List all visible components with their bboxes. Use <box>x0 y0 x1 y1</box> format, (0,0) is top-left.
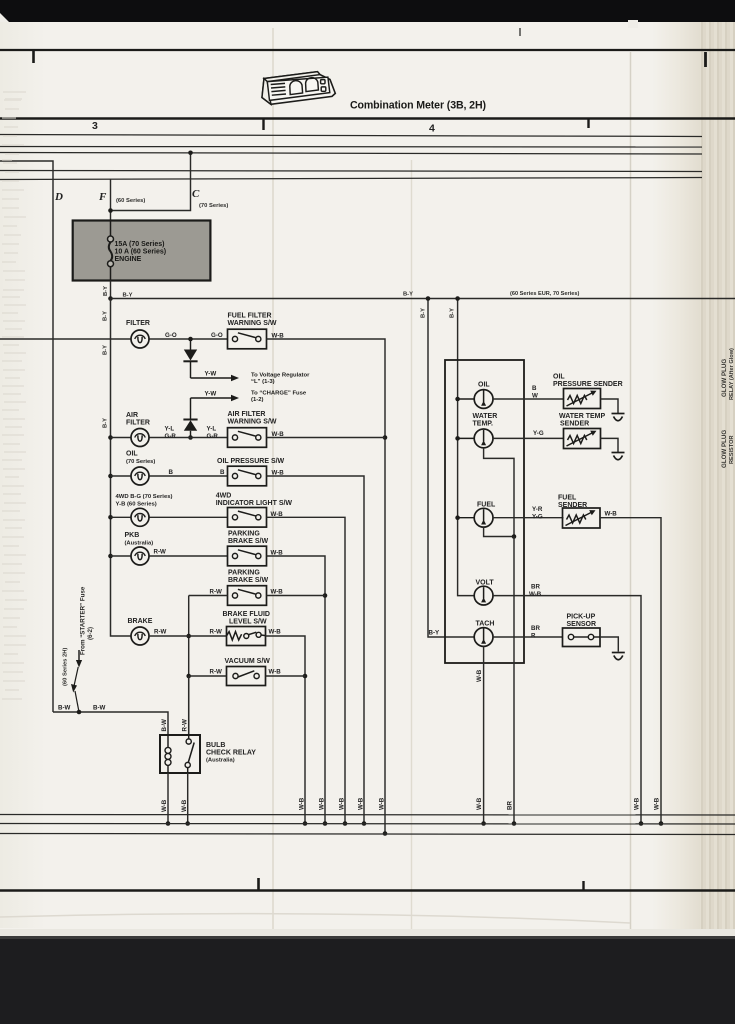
svg-text:B-Y: B-Y <box>103 418 109 428</box>
svg-text:(Australia): (Australia) <box>125 540 154 546</box>
svg-text:SENSOR: SENSOR <box>567 621 597 628</box>
svg-text:WATER TEMP: WATER TEMP <box>559 413 605 420</box>
lamp OIL <box>126 451 155 486</box>
lamp 4WD <box>116 494 173 526</box>
title Combination Meter <box>350 100 486 112</box>
svg-text:BRAKE FLUID: BRAKE FLUID <box>223 611 270 618</box>
wire water temp gauge to sender <box>493 430 564 438</box>
combination meter gauge box <box>445 360 524 663</box>
svg-text:OIL: OIL <box>126 451 138 458</box>
wire pickup sensor to ground <box>600 637 618 652</box>
gauge WATER TEMP <box>458 413 498 448</box>
wire water temp sender to ground <box>601 438 619 452</box>
svg-text:SENDER: SENDER <box>560 420 589 427</box>
node F <box>98 191 145 204</box>
wire BRAKE row <box>149 635 227 637</box>
wire 4WD row <box>111 516 228 518</box>
svg-text:15A (70 Series): 15A (70 Series) <box>115 241 165 248</box>
svg-text:FUEL FILTER: FUEL FILTER <box>228 313 272 320</box>
wire volt to ground bus <box>493 584 643 826</box>
wire B-Y main feed <box>111 291 735 299</box>
combination meter illustration <box>262 72 335 105</box>
svg-text:G-O: G-O <box>211 332 223 339</box>
wire D from left edge down <box>0 161 53 712</box>
svg-text:W-B: W-B <box>271 589 284 596</box>
svg-text:G-R: G-R <box>207 433 219 440</box>
svg-text:B-Y: B-Y <box>123 293 133 299</box>
svg-text:(1-2): (1-2) <box>251 397 263 403</box>
wire sender to ground <box>601 399 619 414</box>
svg-text:W-B: W-B <box>161 799 168 812</box>
wire tach to pickup sensor <box>493 625 563 639</box>
svg-text:RESISTOR: RESISTOR <box>729 436 735 465</box>
svg-text:PRESSURE SENDER: PRESSURE SENDER <box>553 381 623 388</box>
switch PARKING BRAKE S/W 1 <box>228 531 284 566</box>
svg-text:Combination Meter (3B, 2H): Combination Meter (3B, 2H) <box>350 100 486 112</box>
wire VACUUM row <box>189 675 305 677</box>
svg-text:WARNING S/W: WARNING S/W <box>228 320 277 327</box>
svg-text:WARNING S/W: WARNING S/W <box>228 418 277 425</box>
svg-text:TACH: TACH <box>476 621 495 628</box>
wire oil gauge to sender <box>493 385 564 399</box>
svg-text:PARKING: PARKING <box>228 531 260 538</box>
svg-text:B: B <box>220 469 225 476</box>
svg-text:BRAKE S/W: BRAKE S/W <box>228 538 268 545</box>
diode D2 <box>183 398 197 440</box>
gauge FUEL <box>458 502 496 528</box>
sender OIL PRESSURE SENDER <box>553 374 623 409</box>
lamp AIR FILTER <box>126 412 150 447</box>
gauge OIL <box>458 382 493 409</box>
label From STARTER Fuse <box>63 586 95 686</box>
svg-text:W-B: W-B <box>379 797 386 810</box>
switch OIL PRESSURE S/W <box>217 458 285 486</box>
wire B-Y from fuse <box>103 281 113 301</box>
svg-text:FILTER: FILTER <box>126 320 150 327</box>
svg-text:R-W: R-W <box>210 669 223 676</box>
svg-text:W-B: W-B <box>529 591 542 598</box>
svg-text:OIL PRESSURE S/W: OIL PRESSURE S/W <box>217 458 285 465</box>
svg-text:B: B <box>532 385 537 392</box>
relay BULB CHECK RELAY <box>160 735 256 773</box>
svg-text:W-B: W-B <box>269 629 282 636</box>
svg-text:D: D <box>54 191 63 203</box>
ground water temp sender <box>612 453 625 460</box>
wire R-W to relay <box>182 676 189 735</box>
svg-text:4WD B-G (70 Series): 4WD B-G (70 Series) <box>116 494 173 500</box>
wire W-B air filter return <box>267 437 386 439</box>
svg-text:PKB: PKB <box>125 532 140 539</box>
svg-text:TEMP.: TEMP. <box>473 420 494 427</box>
svg-text:R: R <box>531 632 536 639</box>
wire R-W riser <box>186 596 191 736</box>
svg-text:(70 Series): (70 Series) <box>126 459 155 465</box>
svg-text:Y-W: Y-W <box>205 371 217 378</box>
wire W-B 4wd return <box>267 517 348 826</box>
svg-text:4: 4 <box>429 123 435 135</box>
wire relay switch to ground bus <box>181 773 190 826</box>
svg-text:FUEL: FUEL <box>477 502 496 509</box>
svg-text:B-W: B-W <box>161 719 168 732</box>
svg-text:INDICATOR LIGHT S/W: INDICATOR LIGHT S/W <box>216 500 293 507</box>
svg-text:Y-G: Y-G <box>533 430 544 437</box>
svg-text:(6-2): (6-2) <box>87 627 94 640</box>
switch FUEL FILTER WARNING S/W <box>228 313 285 349</box>
wire BR gauge return riser <box>507 537 517 826</box>
gauge VOLT <box>474 580 494 605</box>
svg-text:BR: BR <box>531 584 540 591</box>
wire W-B brake fluid return <box>266 636 308 826</box>
wire fuel gauge return <box>484 527 517 539</box>
svg-text:W: W <box>532 392 538 399</box>
ground bus wires <box>0 815 735 835</box>
svg-text:W-B: W-B <box>299 797 306 810</box>
right page-edge texture <box>0 22 46 928</box>
svg-text:G-R: G-R <box>165 433 177 440</box>
svg-text:B-W: B-W <box>93 705 106 712</box>
wire W-B fuel sender return <box>600 518 663 826</box>
svg-text:PARKING: PARKING <box>228 570 260 577</box>
wire PKB row <box>111 555 228 557</box>
wire AIR FILTER row <box>111 437 228 439</box>
svg-text:To “CHARGE” Fuse: To “CHARGE” Fuse <box>251 391 307 397</box>
svg-text:(Australia): (Australia) <box>206 758 235 764</box>
wire OIL row <box>111 475 228 477</box>
node C <box>192 188 228 209</box>
wire B-Y gauge feed <box>450 296 475 595</box>
svg-text:From “STARTER” Fuse: From “STARTER” Fuse <box>80 586 87 655</box>
left margin bleed-through noise <box>2 92 27 699</box>
svg-text:(60 Series 2H): (60 Series 2H) <box>63 648 69 686</box>
svg-text:OIL: OIL <box>553 374 565 381</box>
switch PARKING BRAKE S/W 2 <box>210 570 284 606</box>
svg-text:(60 Series): (60 Series) <box>116 198 145 204</box>
sensor PICK-UP SENSOR <box>563 614 601 647</box>
svg-text:W-B: W-B <box>319 797 326 810</box>
wire W-B oil pressure return <box>267 476 367 826</box>
wire B-Y trunk <box>103 299 132 637</box>
svg-text:OIL: OIL <box>478 382 490 389</box>
svg-text:BR: BR <box>531 625 540 632</box>
svg-text:RELAY (After Glow): RELAY (After Glow) <box>729 348 735 400</box>
svg-text:BR: BR <box>507 801 514 810</box>
wire to voltage regulator <box>191 371 311 386</box>
svg-text:R-W: R-W <box>182 719 189 732</box>
svg-text:B-W: B-W <box>58 705 71 712</box>
svg-text:ENGINE: ENGINE <box>115 256 142 263</box>
svg-text:FUEL: FUEL <box>558 495 577 502</box>
svg-text:Y-G: Y-G <box>532 513 543 520</box>
fuse ENGINE 15A/10A <box>73 221 211 281</box>
svg-text:W-B: W-B <box>339 797 346 810</box>
svg-text:Y-W: Y-W <box>205 391 217 398</box>
svg-text:W-B: W-B <box>476 669 483 682</box>
svg-text:B-Y: B-Y <box>103 286 109 296</box>
svg-text:W-B: W-B <box>358 797 365 810</box>
svg-text:B-Y: B-Y <box>103 311 109 321</box>
wire B-Y to tach <box>421 296 475 637</box>
lamp FILTER <box>126 320 150 348</box>
svg-text:VACUUM S/W: VACUUM S/W <box>225 658 271 665</box>
svg-text:B-Y: B-Y <box>103 345 109 355</box>
wire B-W to relay <box>53 705 168 736</box>
svg-text:C: C <box>192 188 200 200</box>
svg-text:GLOW PLUG: GLOW PLUG <box>721 359 728 397</box>
svg-text:B-Y: B-Y <box>450 308 456 318</box>
label G-O <box>165 332 223 339</box>
svg-text:“L” (1-3): “L” (1-3) <box>251 379 275 385</box>
label W-B bus drops <box>299 797 386 810</box>
wire W-B fuel filter return <box>267 339 388 836</box>
svg-text:GLOW PLUG: GLOW PLUG <box>721 430 728 468</box>
svg-text:W-B: W-B <box>476 797 483 810</box>
label Y-L G-R <box>165 426 219 441</box>
svg-text:W-B: W-B <box>181 799 188 812</box>
wire W-B tach return <box>476 646 486 825</box>
svg-text:R-W: R-W <box>210 629 223 636</box>
svg-text:AIR: AIR <box>126 412 138 419</box>
diode D1 <box>183 337 197 378</box>
lamp BRAKE <box>128 618 167 645</box>
svg-text:W-B: W-B <box>654 797 661 810</box>
label B <box>169 469 226 476</box>
wire F to fuse <box>110 180 112 221</box>
switch BRAKE FLUID LEVEL S/W <box>210 611 282 646</box>
wire W-B parking brake return <box>267 556 328 826</box>
svg-text:R-W: R-W <box>210 589 223 596</box>
svg-text:To Voltage Regulator: To Voltage Regulator <box>251 373 310 379</box>
svg-text:WATER: WATER <box>473 413 498 420</box>
svg-text:CHECK RELAY: CHECK RELAY <box>206 749 256 756</box>
svg-text:B-Y: B-Y <box>429 630 441 637</box>
svg-text:BRAKE S/W: BRAKE S/W <box>228 577 268 584</box>
svg-text:4WD: 4WD <box>216 493 232 500</box>
switch VACUUM S/W <box>210 658 282 686</box>
switch AIR FILTER WARNING S/W <box>228 411 285 447</box>
svg-text:(70 Series): (70 Series) <box>199 203 228 209</box>
svg-text:Y-R: Y-R <box>532 506 543 513</box>
svg-text:(60 Series EUR, 70 Series): (60 Series EUR, 70 Series) <box>510 291 579 297</box>
svg-text:Y-L: Y-L <box>207 426 217 433</box>
svg-text:Y-B (60 Series): Y-B (60 Series) <box>116 501 157 507</box>
wire FILTER row <box>0 338 228 340</box>
wire relay coil to ground bus <box>161 773 170 826</box>
svg-text:G-O: G-O <box>165 332 177 339</box>
wire from starter fuse arrow <box>71 650 82 711</box>
svg-text:B: B <box>169 469 174 476</box>
wire C to fuse <box>108 151 193 213</box>
svg-text:BULB: BULB <box>206 742 225 749</box>
switch 4WD INDICATOR LIGHT S/W <box>216 493 293 528</box>
svg-text:F: F <box>98 191 107 203</box>
svg-text:LEVEL S/W: LEVEL S/W <box>229 618 267 625</box>
svg-text:VOLT: VOLT <box>476 580 495 587</box>
svg-text:W-B: W-B <box>634 797 641 810</box>
svg-text:3: 3 <box>92 120 98 132</box>
svg-text:W-B: W-B <box>605 511 618 518</box>
svg-text:R-W: R-W <box>154 549 167 556</box>
sender WATER TEMP SENDER <box>559 413 605 449</box>
svg-text:FILTER: FILTER <box>126 419 150 426</box>
ground pickup sensor <box>612 653 625 660</box>
svg-text:BRAKE: BRAKE <box>128 618 153 625</box>
svg-text:10 A (60 Series): 10 A (60 Series) <box>115 249 167 256</box>
svg-text:AIR FILTER: AIR FILTER <box>228 411 266 418</box>
header bus wires <box>0 135 702 180</box>
sender FUEL SENDER <box>558 495 617 529</box>
wire water temp gauge return <box>484 448 514 537</box>
svg-text:PICK-UP: PICK-UP <box>567 614 596 621</box>
lamp PKB <box>125 532 167 565</box>
svg-text:B-Y: B-Y <box>421 308 427 318</box>
svg-text:R-W: R-W <box>154 629 167 636</box>
svg-text:W-B: W-B <box>269 669 282 676</box>
node D <box>54 191 63 203</box>
svg-text:B-Y: B-Y <box>403 292 413 298</box>
svg-text:Y-L: Y-L <box>165 426 175 433</box>
label GLOW PLUG RELAY margin <box>721 348 735 468</box>
wire to CHARGE fuse <box>191 391 307 404</box>
wire parking brake 2 row <box>189 595 325 597</box>
gauge TACH <box>474 621 494 647</box>
wire fuel gauge to sender <box>493 506 564 520</box>
ground oil pressure sender <box>612 414 625 421</box>
